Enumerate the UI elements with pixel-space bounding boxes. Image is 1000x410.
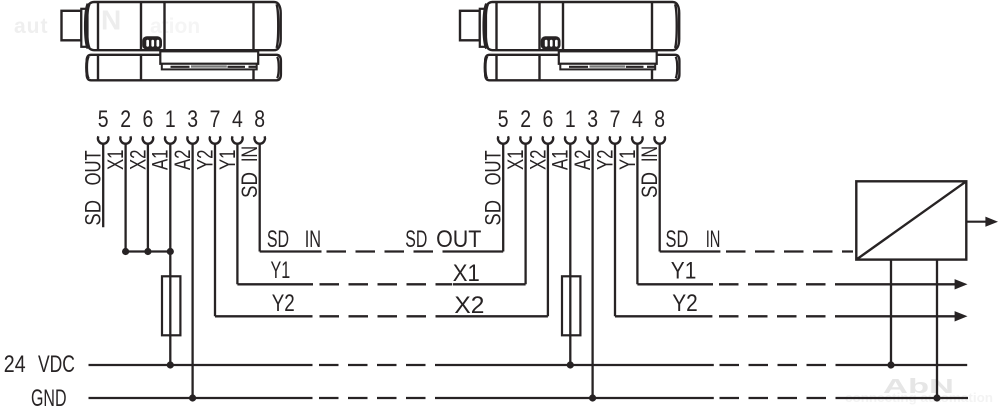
svg-text:A2: A2: [170, 150, 195, 171]
junction dot F2/24VDC: [567, 361, 574, 368]
sensor S1 actuator body outline: [87, 55, 281, 81]
sensor S2 slot mark 3: [626, 66, 644, 68]
svg-text:X2: X2: [125, 150, 150, 171]
sensor S1 pin 4 socket arc: [232, 136, 243, 143]
svg-text:IN: IN: [637, 146, 662, 162]
sensor S2 actuator divider 2: [538, 55, 540, 81]
sensor S1 pin 3 socket arc: [187, 136, 198, 143]
sensor S1 pigtail connector icon: [142, 36, 162, 49]
svg-text:SD: SD: [666, 226, 689, 253]
wire S1 pin3 A2 down to GND: [191, 144, 193, 398]
sensor S2 slot mark 4: [647, 66, 655, 68]
net Y1: S1 Y1 solid segment: [237, 283, 313, 285]
svg-text:1: 1: [165, 106, 176, 133]
wire S2 pin5 SD OUT down: [502, 144, 504, 252]
junction dot box/GND: [933, 394, 940, 401]
net Y1: dashed cable segment 1: [320, 283, 453, 285]
sensor S2 pin 4 socket arc: [632, 136, 643, 143]
net SD2: dashed segment to evaluation unit: [726, 250, 853, 252]
wire S1 pin4 Y1 down: [236, 144, 238, 285]
sensor S1 body divider 2: [140, 2, 142, 50]
arrowhead Y2 output: [955, 311, 968, 321]
svg-text:24: 24: [4, 351, 26, 378]
svg-text:2: 2: [520, 106, 531, 133]
junction dot box/24VDC: [887, 361, 894, 368]
net Y1b: S2 Y1 solid segment: [637, 283, 713, 285]
sensor S2 pigtail connector icon: [541, 36, 561, 49]
GND rail dashed 1: [319, 397, 450, 399]
sensor S2 body divider 1: [495, 2, 497, 50]
sensor S2 mounting flange: [480, 9, 486, 47]
sensor S1 pin 1 socket arc: [165, 136, 176, 143]
svg-text:Y2: Y2: [192, 150, 217, 171]
sensor S1 slot mark 1: [171, 66, 190, 68]
net SD: S1 SD IN solid segment: [260, 250, 322, 252]
svg-text:OUT: OUT: [481, 150, 506, 185]
arrowhead evaluation unit output: [985, 217, 998, 227]
sensor S2 body divider 2: [538, 2, 540, 50]
svg-text:X2: X2: [454, 292, 484, 319]
sensor S2 actuator right cap arc: [676, 57, 678, 79]
GND rail solid 1: [89, 397, 313, 399]
junction dot S1 A1/bus: [167, 248, 174, 255]
svg-text:X1: X1: [453, 260, 480, 287]
evaluation unit diagonal: [856, 181, 966, 259]
24VDC rail dashed 1: [319, 364, 450, 366]
svg-text:SD: SD: [267, 226, 289, 253]
sensor S2 pin 8 socket arc: [654, 136, 665, 143]
wire S1 pin5 SD OUT stub (unconnected): [102, 144, 104, 228]
sensor S2 slot mark 2 (gray): [590, 65, 626, 67]
sensor S1 slot mark 3: [228, 66, 246, 68]
sensor S2 connector icon slot 2: [550, 40, 553, 47]
wire F2 to 24VDC rail: [569, 335, 571, 365]
wire S2 pin2 X1 down: [524, 144, 526, 285]
evaluation unit output line: [966, 221, 988, 223]
wire S2 pin7 Y2 down: [614, 144, 616, 317]
net Y1: S2 X1 solid segment: [453, 283, 526, 285]
svg-text:ation: ation: [150, 15, 200, 38]
junction dot S1 A2/GND: [189, 394, 196, 401]
sensor S2 mounting plate: [559, 51, 657, 64]
junction dot S1 X2/bus: [144, 248, 151, 255]
sensor S1 pin 2 socket arc: [120, 136, 131, 143]
sensor S1 right end cap arc: [277, 4, 279, 48]
svg-text:6: 6: [143, 106, 154, 133]
sensor S1 pin 6 socket arc: [143, 136, 154, 143]
sensor S1 pin 5 socket arc: [98, 136, 108, 143]
sensor S2 right end cap arc: [675, 4, 677, 48]
sensor S2 cable connector block: [460, 11, 480, 41]
sensor S2 pin 1 socket arc: [565, 136, 576, 143]
wire S1 X1-X2-A1 bus: [126, 250, 171, 252]
svg-text:X1: X1: [503, 150, 528, 171]
sensor S2 actuator divider 3: [651, 55, 653, 81]
svg-text:X1: X1: [103, 150, 128, 171]
svg-text:SD: SD: [637, 172, 662, 198]
svg-text:Y2: Y2: [592, 150, 617, 171]
svg-text:3: 3: [587, 106, 598, 133]
svg-text:VDC: VDC: [38, 351, 75, 378]
svg-text:IN: IN: [305, 226, 321, 253]
wire F1 to 24VDC rail: [169, 335, 171, 365]
evaluation unit box: [856, 181, 966, 259]
24VDC rail dashed 2: [720, 364, 853, 366]
svg-text:Y1: Y1: [271, 257, 291, 284]
GND rail solid 3: [852, 397, 968, 399]
svg-text:Y1: Y1: [615, 150, 640, 171]
arrowhead Y1 output: [955, 279, 968, 289]
sensor S2 pin 7 socket arc: [610, 136, 620, 143]
sensor S1 body divider 1: [97, 2, 99, 50]
sensor S1 slot mark 4: [249, 66, 257, 68]
wire S1 pin7 Y2 down: [214, 144, 216, 317]
svg-text:IN: IN: [706, 226, 721, 253]
sensor S1 body divider 4: [252, 2, 254, 50]
sensor S2 slot rail: [560, 64, 655, 70]
svg-text:Y2: Y2: [272, 290, 295, 317]
svg-text:SD: SD: [481, 200, 506, 226]
net Y2b: output solid segment: [852, 315, 958, 317]
GND rail dashed 2: [720, 397, 853, 399]
sensor S2 pin 2 socket arc: [520, 136, 531, 143]
24VDC rail solid 3: [852, 364, 967, 366]
sensor S2 left end cap arc: [485, 4, 488, 48]
svg-text:OUT: OUT: [436, 226, 482, 253]
svg-text:A1: A1: [148, 150, 173, 171]
sensor S2 connector icon slot 1: [545, 40, 548, 47]
sensor S1 actuator divider 3: [252, 55, 254, 81]
svg-text:A1: A1: [548, 150, 573, 171]
sensor S1 actuator divider 2: [140, 55, 142, 81]
sensor S1 slot rail: [162, 64, 257, 70]
sensor S1 actuator right cap arc: [277, 57, 279, 79]
svg-text:1: 1: [565, 106, 576, 133]
sensor S1 connector icon slot 2: [151, 40, 154, 47]
sensor S1 pin 7 socket arc: [210, 136, 221, 143]
wire S1 pin1 A1 down to fuse F1: [169, 144, 171, 277]
svg-text:6: 6: [543, 106, 554, 133]
sensor S2 actuator body outline: [485, 55, 679, 81]
24VDC rail solid 2: [450, 364, 714, 366]
sensor S1 slot mark 2 (gray): [191, 65, 227, 67]
sensor S1 left end cap arc: [86, 4, 89, 48]
sensor S2 pin 5 socket arc: [498, 136, 508, 143]
wire S1 pin2 X1 down to bus: [124, 144, 126, 252]
net SD: S2 SD OUT solid segment: [452, 250, 503, 252]
svg-text:Y2: Y2: [672, 290, 698, 317]
sensor S2 connector icon slot 3: [555, 40, 558, 47]
24VDC rail solid 1: [89, 364, 313, 366]
sensor S2 body outline: [485, 2, 679, 50]
wire through fuse F2: [569, 276, 571, 335]
svg-text:4: 4: [232, 106, 243, 133]
junction dot F1/24VDC: [167, 361, 174, 368]
svg-text:3: 3: [187, 106, 198, 133]
wire through fuse F1: [169, 276, 171, 335]
net SD2: S2 SD IN solid segment: [660, 250, 721, 252]
svg-text:5: 5: [498, 106, 509, 133]
sensor S2 body divider 3: [562, 2, 564, 50]
sensor S2 slot mark 1: [569, 66, 588, 68]
sensor S1 pin 8 socket arc: [254, 136, 264, 143]
sensor S1 body divider 3: [163, 2, 165, 50]
svg-text:7: 7: [610, 106, 621, 133]
svg-text:8: 8: [654, 106, 665, 133]
junction dot S1 X1/bus: [122, 248, 129, 255]
svg-text:A2: A2: [570, 150, 595, 171]
net Y1b: dashed segment 2: [719, 283, 852, 285]
wire S2 pin4 Y1 down: [636, 144, 638, 285]
wire S2 pin3 A2 down to GND: [591, 144, 593, 398]
svg-text:X2: X2: [525, 150, 550, 171]
svg-text:7: 7: [210, 106, 221, 133]
fuse F1: [162, 276, 180, 335]
svg-text:Y1: Y1: [671, 258, 697, 285]
sensor S1 actuator left cap arc: [87, 56, 89, 78]
net Y2: S2 X2 solid segment: [452, 315, 548, 317]
wire S2 pin6 X2 down: [547, 144, 549, 317]
sensor S2 body divider 4: [651, 2, 653, 50]
sensor S1 cable connector block: [62, 11, 82, 41]
wire box to 24VDC: [890, 260, 892, 365]
net Y1b: output solid segment: [852, 283, 958, 285]
svg-text:5: 5: [98, 106, 109, 133]
svg-text:8: 8: [254, 106, 265, 133]
sensor S2 actuator left cap arc: [485, 56, 487, 78]
svg-text:Y1: Y1: [215, 150, 240, 171]
wire S2 pin1 A1 down to fuse F2: [569, 144, 571, 277]
sensor S1 body outline: [86, 2, 280, 50]
svg-text:2: 2: [120, 106, 131, 133]
sensor S1 actuator divider 1: [97, 55, 99, 81]
net Y2b: dashed segment 2: [719, 315, 852, 317]
sensor S1 mounting plate: [160, 51, 258, 64]
svg-text:OUT: OUT: [81, 150, 106, 185]
svg-text:IN: IN: [237, 146, 262, 162]
svg-text:SD: SD: [237, 172, 262, 198]
sensor S2 actuator divider 1: [495, 55, 497, 81]
svg-text:SD: SD: [81, 200, 106, 226]
svg-text:aut: aut: [14, 15, 49, 38]
sensor S2 pin 6 socket arc: [543, 136, 554, 143]
net SD: dashed cable segment 1: [327, 250, 453, 252]
GND rail solid 2: [450, 397, 714, 399]
svg-text:SD: SD: [405, 226, 427, 253]
svg-text:GND: GND: [31, 385, 67, 410]
net Y2: dashed cable segment 1: [320, 315, 453, 317]
wire S1 pin8 SD IN down: [259, 144, 261, 252]
sensor S1 connector icon slot 1: [146, 40, 149, 47]
net Y2b: S2 Y2 solid segment: [615, 315, 712, 317]
sensor S1 mounting flange: [81, 9, 87, 47]
wire box to GND: [936, 260, 938, 398]
fuse F2: [562, 276, 580, 335]
junction dot S2 A2/GND: [589, 394, 596, 401]
net Y2: S1 Y2 solid segment: [215, 315, 313, 317]
wire S1 pin6 X2 down to bus: [147, 144, 149, 252]
sensor S2 pin 3 socket arc: [587, 136, 598, 143]
wire S2 pin8 SD IN down: [659, 144, 661, 252]
svg-text:N: N: [101, 5, 121, 36]
svg-text:4: 4: [632, 106, 643, 133]
sensor S1 connector icon slot 3: [157, 40, 160, 47]
